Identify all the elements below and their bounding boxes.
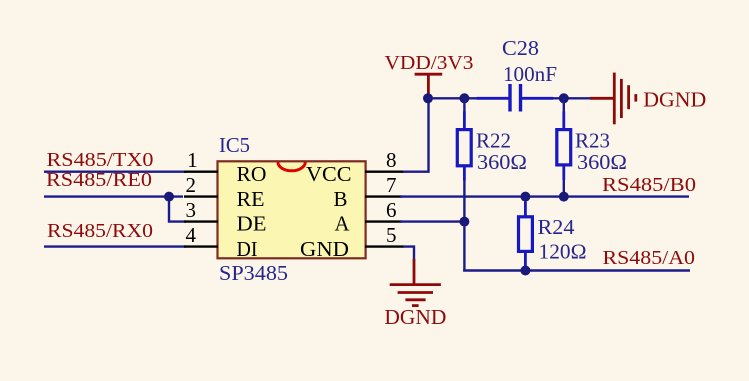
resistor R24 lead bottom: [524, 250, 527, 266]
svg-text:DGND: DGND: [384, 305, 446, 329]
ground DGND top-right bar 4: [634, 94, 637, 102]
ground DGND bottom bar 1: [390, 283, 441, 286]
IC U1 body: [218, 161, 366, 258]
svg-text:RS485/B0: RS485/B0: [602, 174, 696, 196]
junction node R24 bottom: [520, 266, 530, 276]
svg-text:RO: RO: [237, 162, 267, 186]
svg-text:DI: DI: [237, 237, 258, 261]
IC5 pin 6 stub: [365, 220, 402, 222]
ground DGND top-right bar 1: [613, 73, 616, 125]
svg-text:8: 8: [386, 148, 397, 172]
svg-text:R23: R23: [575, 129, 610, 153]
wire pin 6 to A node: [400, 220, 464, 222]
resistor R23 lead bottom: [562, 164, 565, 180]
ground DGND bottom bar 4: [412, 304, 419, 307]
junction node A: [459, 217, 469, 227]
wire VDD rail right of C28: [521, 97, 554, 100]
wire pin 5 to ground: [403, 247, 414, 261]
wire RE-DE link: [169, 197, 186, 222]
junction node R22 top: [459, 93, 469, 103]
svg-text:100nF: 100nF: [503, 62, 557, 86]
IC5 pin 8 stub: [365, 170, 404, 172]
resistor R22 lead bottom (crosses B rail): [463, 165, 466, 181]
svg-text:360Ω: 360Ω: [577, 150, 627, 174]
capacitor C28 right plate: [519, 84, 522, 112]
ground DGND top-right lead: [590, 97, 613, 100]
junction node R23 top: [559, 93, 569, 103]
svg-text:R22: R22: [476, 129, 511, 153]
resistor R24 body: [519, 217, 533, 252]
IC5 pin 2 stub: [184, 195, 218, 197]
svg-text:RE: RE: [237, 187, 265, 211]
svg-text:DGND: DGND: [643, 88, 706, 112]
IC5 pin 3 stub: [184, 220, 218, 222]
junction node R24 top: [520, 192, 530, 202]
svg-text:B: B: [334, 187, 348, 211]
IC5 pin 7 stub: [365, 195, 402, 197]
ground DGND bottom bar 2: [398, 291, 433, 294]
wire pin 8 riser to VDD: [403, 98, 429, 171]
svg-text:VCC: VCC: [306, 162, 352, 186]
ground DGND top-right bar 2: [620, 79, 623, 118]
svg-text:RS485/RX0: RS485/RX0: [47, 220, 153, 242]
svg-text:VDD/3V3: VDD/3V3: [385, 52, 474, 74]
ground DGND top-right bar 3: [627, 85, 630, 109]
IC5 pin 5 stub: [365, 245, 404, 247]
wire A rail (to RS485/A0): [463, 269, 690, 271]
wire VDD rail left of C28: [427, 97, 478, 99]
svg-text:RS485/RE0: RS485/RE0: [46, 169, 152, 191]
svg-text:RS485/TX0: RS485/TX0: [47, 149, 154, 171]
wire B rail (pin 7 to RS485/B0): [400, 195, 689, 197]
svg-text:SP3485: SP3485: [219, 261, 288, 285]
IC5 pin 4 stub: [184, 245, 218, 247]
ground DGND bottom bar 3: [405, 298, 425, 301]
svg-text:RS485/A0: RS485/A0: [603, 247, 696, 269]
svg-text:A: A: [335, 212, 351, 236]
resistor R23 lead top: [563, 98, 565, 112]
svg-text:IC5: IC5: [219, 133, 250, 157]
resistor R24 lead top: [524, 197, 526, 203]
svg-text:5: 5: [386, 223, 397, 247]
svg-text:6: 6: [386, 198, 397, 222]
junction node VDD: [423, 93, 433, 103]
svg-text:R24: R24: [538, 215, 576, 239]
wire RS485/RX0 to pin 4: [44, 245, 186, 247]
IC U1 notch: [278, 162, 305, 171]
svg-text:120Ω: 120Ω: [539, 240, 587, 264]
wire A drop: [463, 222, 465, 271]
svg-text:4: 4: [186, 223, 197, 247]
svg-text:3: 3: [186, 198, 197, 222]
resistor R22 body: [457, 130, 471, 166]
junction node RE/DE: [164, 192, 174, 202]
svg-text:7: 7: [386, 173, 397, 197]
IC5 pin 1 stub: [184, 170, 218, 172]
power symbol VDD/3V3 stem: [427, 74, 430, 97]
svg-text:1: 1: [187, 148, 198, 172]
wire RS485/RE0 to pin 2: [44, 195, 183, 197]
ground DGND bottom stem: [413, 259, 416, 284]
svg-text:DE: DE: [237, 212, 267, 236]
junction node R23 bottom: [559, 192, 569, 202]
capacitor C28 left plate: [508, 84, 511, 112]
power symbol VDD/3V3 bar: [415, 73, 443, 76]
svg-text:GND: GND: [300, 237, 349, 261]
wire RS485/TX0 to pin 1: [44, 170, 186, 172]
svg-text:2: 2: [186, 173, 197, 197]
svg-text:360Ω: 360Ω: [477, 150, 527, 174]
svg-text:C28: C28: [502, 36, 539, 60]
resistor R22 lead top: [463, 98, 465, 112]
resistor R23 body: [557, 130, 571, 165]
